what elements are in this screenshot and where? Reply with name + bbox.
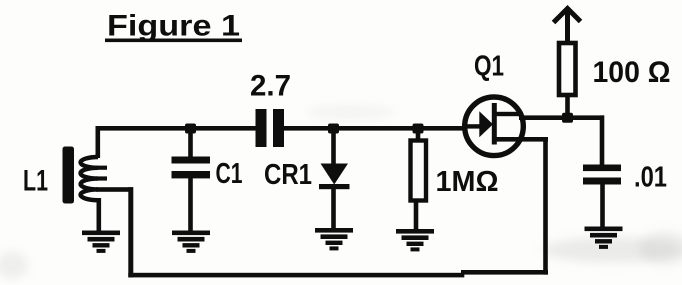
diode CR1 cathode bar [319,184,350,189]
wire L1 tap horizontal [96,187,133,192]
node junction at C1 [185,124,196,134]
capacitor .01 top plate [583,165,621,172]
wire resistor 100 bottom [565,95,570,117]
capacitor C1 top plate [172,157,211,164]
svg-text:Figure 1: Figure 1 [107,10,240,43]
capacitor 2.7 left plate [256,109,267,147]
svg-text:100 Ω: 100 Ω [593,56,671,89]
power arrow up [554,9,581,43]
transistor Q1 emitter arrow [479,111,493,137]
svg-text:L1: L1 [23,165,48,198]
wire feedback right vertical [543,137,548,275]
inductor L1 tick 2 [96,176,107,180]
transistor Q1 base bar [492,103,497,145]
resistor 100 body [559,43,576,95]
wire Q1 collector to output node [519,115,604,120]
wire L1 top vertical [96,126,101,158]
resistor 1M body [411,141,427,201]
svg-text:Q1: Q1 [474,51,504,83]
ground under R 1M [396,229,434,251]
transistor Q1 circle [465,97,524,156]
title underline [105,39,242,43]
wire right branch vertical [600,115,605,166]
inductor L1 core bar [63,147,75,204]
wire feedback left vertical [128,187,133,277]
node junction below 100 ohm [562,113,573,123]
wire top horizontal bus left of 2.7 [96,126,257,131]
svg-text:2.7: 2.7 [250,70,291,103]
ground under C1 [172,231,210,253]
ground under capacitor .01 [585,227,623,249]
wire C1 top [188,128,193,158]
inductor L1 coil [81,157,99,200]
wire top horizontal bus right of 2.7 [283,126,466,131]
capacitor C1 bottom plate [172,171,211,178]
wire R 1M top [416,128,421,141]
wire Q1 emitter bottom horizontal [495,137,548,142]
node junction at CR1 [328,124,339,134]
wire CR1 bottom to ground [331,188,336,229]
svg-text:C1: C1 [216,158,243,190]
ground under CR1 [315,228,353,250]
wire Q1 collector inside segment [495,112,523,116]
node junction at R 1M [413,124,424,134]
wire feedback bottom horizontal left segment [128,273,464,278]
wire CR1 top [331,128,336,166]
diode CR1 triangle [321,164,349,185]
wire C1 bottom to ground [188,177,193,232]
svg-text:.01: .01 [634,162,667,194]
svg-text:CR1: CR1 [264,159,312,191]
capacitor 2.7 right plate [273,109,284,147]
wire feedback bottom horizontal right segment [461,270,548,275]
transistor Q1 gate lead [462,124,481,128]
ground under L1 [82,231,120,253]
wire R 1M bottom to ground [414,200,419,230]
wire L1 bottom to ground [97,198,102,232]
wire capacitor .01 bottom to ground [600,183,605,228]
svg-text:1MΩ: 1MΩ [436,166,499,198]
inductor L1 tick 1 [96,166,107,170]
capacitor .01 bottom plate [583,178,621,185]
